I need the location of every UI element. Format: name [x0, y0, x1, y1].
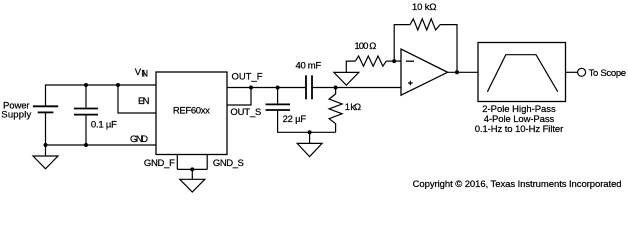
node dot minus input: [392, 59, 396, 63]
node dot top rail C1: [84, 83, 88, 87]
op-amp plus sign: [408, 81, 413, 86]
node dot gnd rail C1: [84, 143, 88, 147]
wire EN drop: [118, 85, 156, 113]
wire filter output: [566, 71, 578, 73]
resistor R2 10k zigzag: [410, 19, 440, 30]
svg-text:40 mF: 40 mF: [296, 61, 322, 72]
wire ground stub C2: [309, 132, 311, 143]
node dot gnd rail battery: [44, 143, 48, 147]
node dot C2 gnd: [308, 130, 312, 134]
ground G2: [180, 179, 205, 192]
svg-text:1 kΩ: 1 kΩ: [345, 102, 361, 113]
wire ground rail: [46, 144, 157, 146]
op-amp U1 feedback left vertical wire: [394, 25, 410, 62]
wire VIN top rail: [46, 85, 157, 106]
wire 100ohm left lead down: [346, 61, 355, 72]
wire OUT_F: [227, 87, 306, 89]
svg-text:IN: IN: [141, 69, 148, 80]
capacitor C1 0.1uF: [85, 85, 87, 108]
wire op-amp output: [448, 71, 478, 73]
op-amp minus sign: [406, 60, 414, 62]
IC REF60xx box: [156, 72, 227, 155]
resistor R4 1k zigzag vertical: [329, 88, 342, 133]
node dot top rail EN: [116, 83, 120, 87]
svg-text:REF60xx: REF60xx: [173, 105, 210, 116]
node dot op-amp output: [455, 70, 459, 74]
svg-text:GND: GND: [130, 134, 148, 145]
wire feedback right vertical: [440, 25, 457, 73]
wire OUT_S: [227, 88, 251, 106]
wire battery to ground rail: [45, 112, 47, 145]
wire ground stub IC: [191, 169, 193, 179]
svg-text:Copyright © 2016, Texas Instru: Copyright © 2016, Texas Instruments Inco…: [413, 179, 622, 190]
wire 100ohm to minus input: [386, 60, 401, 62]
svg-text:OUT_F: OUT_F: [232, 72, 263, 83]
svg-text:GND_F: GND_F: [144, 158, 175, 169]
node dot IC gnd: [190, 167, 194, 171]
wire 40mF to plus input: [312, 87, 401, 89]
svg-text:Supply: Supply: [1, 110, 31, 121]
node dot OUT_S join: [249, 86, 253, 90]
wire GND_F stub: [176, 155, 178, 170]
svg-text:0.1 µF: 0.1 µF: [91, 119, 117, 130]
terminal to scope: [578, 68, 586, 76]
node dot C2 top: [276, 86, 280, 90]
svg-text:0.1-Hz to 10-Hz Filter: 0.1-Hz to 10-Hz Filter: [475, 124, 564, 135]
filter bandpass curve: [487, 55, 557, 92]
svg-text:To Scope: To Scope: [589, 68, 627, 79]
wire ground stub left: [45, 145, 47, 156]
battery power supply: [33, 106, 58, 112]
capacitor C3 40mF plates: [306, 75, 312, 99]
svg-text:22 µF: 22 µF: [283, 114, 307, 125]
svg-text:10 kΩ: 10 kΩ: [412, 2, 437, 13]
svg-text:OUT_S: OUT_S: [230, 107, 261, 118]
node dot R4 top: [334, 86, 338, 90]
ground G4: [297, 143, 322, 156]
op-amp U1 triangle: [401, 49, 448, 95]
resistor R3 100 ohm zigzag: [355, 56, 386, 66]
filter box: [478, 43, 566, 102]
svg-text:100 Ω: 100 Ω: [354, 41, 376, 52]
svg-text:GND_S: GND_S: [213, 158, 244, 169]
ground G3: [334, 72, 359, 85]
capacitor C2 22uF: [277, 88, 279, 104]
wire GND_F to GND_S: [177, 168, 207, 170]
wire GND_S stub: [206, 155, 208, 170]
ground G1: [33, 156, 58, 169]
svg-text:EN: EN: [138, 96, 150, 107]
